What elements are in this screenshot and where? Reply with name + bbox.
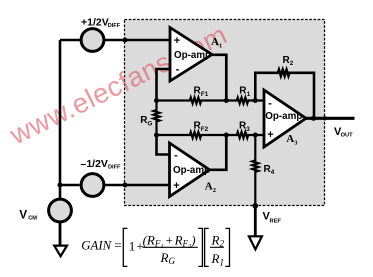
node A2 out / row2 bbox=[224, 133, 229, 138]
wire: -1/2Vdiff row to A2 + input bbox=[60, 184, 170, 187]
source Vcm bbox=[49, 199, 72, 222]
svg-text:1: 1 bbox=[129, 239, 136, 254]
node R2 tap bbox=[253, 98, 258, 103]
gain equation bbox=[81, 228, 229, 267]
wire: A1 inverting feedback bbox=[157, 69, 171, 101]
svg-text:R1: R1 bbox=[211, 251, 224, 267]
svg-text:-: - bbox=[176, 64, 180, 76]
node A1 fb / RG bbox=[154, 98, 159, 103]
node R4 tap bbox=[253, 133, 258, 138]
row 1 with resistors RF1, R1 bbox=[157, 98, 265, 104]
svg-text:RG: RG bbox=[160, 250, 176, 266]
wire: Vcm to ground bbox=[59, 222, 62, 246]
svg-text:–1/2V: –1/2V bbox=[81, 158, 108, 170]
resistor RG vertical bbox=[154, 101, 160, 136]
svg-text:OUT: OUT bbox=[341, 133, 354, 139]
svg-text:2: 2 bbox=[290, 60, 294, 67]
svg-text:+: + bbox=[173, 180, 179, 192]
svg-text:-: - bbox=[174, 149, 178, 161]
bracket [ outer bbox=[123, 228, 127, 266]
row 2 with resistors RF2, R3 bbox=[157, 132, 265, 138]
op-amp A3 bbox=[264, 90, 306, 147]
svg-text:GAIN: GAIN bbox=[81, 238, 112, 252]
svg-text:3: 3 bbox=[246, 126, 250, 133]
wire: A1 output to row1 bbox=[212, 55, 226, 101]
fraction (RF1+RF2)/RG bbox=[143, 246, 198, 248]
fraction R2/R1 bbox=[210, 246, 224, 248]
node at box edge (top input) bbox=[123, 38, 128, 43]
svg-text:F1: F1 bbox=[201, 91, 209, 98]
svg-text:V: V bbox=[19, 210, 27, 222]
wire: A2 output to row2 bbox=[210, 135, 227, 170]
node R2 join output bbox=[311, 116, 316, 121]
node output at box edge bbox=[323, 116, 327, 120]
node A2 fb / RG bbox=[154, 133, 159, 138]
resistor R2 feedback loop bbox=[255, 70, 314, 119]
svg-text:+: + bbox=[267, 129, 273, 141]
svg-text:CM: CM bbox=[28, 216, 37, 222]
wire: Vref stem bbox=[254, 206, 257, 236]
svg-text:-: - bbox=[268, 97, 272, 109]
svg-text:REF: REF bbox=[270, 218, 282, 224]
bracket ] bbox=[198, 228, 202, 266]
svg-text:=: = bbox=[114, 237, 121, 252]
wire: A3 output to Vout bbox=[306, 117, 355, 120]
svg-text:DIFF: DIFF bbox=[108, 23, 121, 29]
svg-text:1: 1 bbox=[247, 91, 251, 98]
svg-text:F2: F2 bbox=[201, 126, 209, 133]
Vref arrow bbox=[249, 236, 262, 249]
node at box edge (bottom input) bbox=[123, 183, 128, 188]
node at left bus / -1/2Vdiff row bbox=[58, 183, 63, 188]
svg-text:Op-amp: Op-amp bbox=[173, 165, 210, 176]
svg-text:4: 4 bbox=[271, 169, 275, 176]
wire: A2 inverting feedback bbox=[157, 135, 170, 155]
wire: +1/2Vdiff row to A1 + input bbox=[60, 39, 170, 42]
amplifier block shaded dashed box bbox=[125, 20, 325, 206]
svg-text:Op-amp: Op-amp bbox=[174, 50, 211, 61]
bracket [ bbox=[205, 228, 209, 266]
node R4 at box edge bbox=[253, 203, 259, 209]
source -1/2Vdiff bbox=[81, 174, 104, 197]
bracket ] bbox=[225, 228, 229, 266]
wire: left vertical bus bbox=[59, 40, 62, 198]
op-amp A2 bbox=[170, 143, 210, 197]
svg-text:G: G bbox=[148, 120, 153, 127]
svg-text:+1/2V: +1/2V bbox=[81, 17, 109, 29]
ground arrow bbox=[54, 246, 67, 257]
svg-text:R2: R2 bbox=[211, 232, 225, 248]
svg-text:DIFF: DIFF bbox=[108, 165, 121, 171]
node A1 out / row1 bbox=[224, 98, 229, 103]
resistor R4 bbox=[252, 135, 258, 206]
svg-text:Op-amp: Op-amp bbox=[265, 111, 302, 122]
svg-text:+: + bbox=[174, 35, 180, 47]
source +1/2Vdiff bbox=[81, 29, 104, 52]
op-amp A1 bbox=[170, 28, 212, 82]
